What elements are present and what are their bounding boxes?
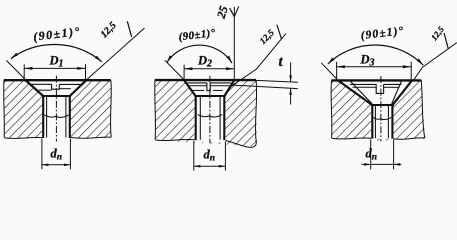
hole wall left (fig 2) <box>195 96 197 140</box>
screw shank line left (fig 3) <box>374 106 376 138</box>
hole wall right (fig 2) <box>223 96 225 140</box>
dn dimension line (fig 2) <box>194 165 226 167</box>
dn extension line right (fig 2) <box>224 142 226 171</box>
D2 extension line right extended to Ra25 mark (fig 2) <box>233 7 235 79</box>
roughness leader 12.5 (fig 2) <box>232 34 286 86</box>
screw shank line right (fig 1) <box>65 97 67 138</box>
top surface line (fig 2) <box>155 79 256 81</box>
centre axis (fig 2) <box>209 76 211 143</box>
countersink cone right edge (fig 2) <box>224 80 234 96</box>
block break edge right (fig 3) <box>421 80 425 138</box>
countersink bottom line (fig 1) <box>42 95 71 97</box>
D3 extension line right (fig 3) <box>410 62 412 80</box>
block bottom edge (fig 3) <box>332 138 372 139</box>
hole wall right (fig 1) <box>69 96 71 138</box>
hatched block (figure 3) <box>331 80 425 140</box>
countersink cone left edge (fig 2) <box>184 80 196 96</box>
D1 dimension line (fig 1) <box>24 67 85 69</box>
t dimension upper arrow (fig 2) <box>290 62 292 82</box>
dn extension line left (fig 3) <box>370 139 372 169</box>
thread runout curves (fig 2) <box>198 114 210 116</box>
top surface line (fig 1) <box>4 79 111 81</box>
thread runout curves (fig 1) <box>44 115 56 117</box>
block break edge right (fig 2) <box>253 80 256 147</box>
left cone extension above surface (fig 2) <box>165 60 184 79</box>
dn extension line right (fig 3) <box>393 139 395 169</box>
left cone extension above surface (fig 3) <box>321 63 338 80</box>
screw shank line left (fig 1) <box>46 97 48 138</box>
countersink cone left edge (fig 1) <box>26 80 44 96</box>
Ra 25 roughness tick (fig 2) <box>230 8 235 17</box>
screw slot lines (fig 2) <box>188 85 207 87</box>
t upper extension line at surface level (fig 2) <box>256 80 298 82</box>
countersink cone right edge (fig 1) <box>70 80 87 96</box>
screw shank line right (fig 2) <box>219 97 221 140</box>
dn extension line left (fig 2) <box>193 141 195 171</box>
block bottom edge (fig 1) <box>4 137 42 138</box>
dn dimension line (fig 1) <box>42 164 71 166</box>
screw head cone side left (fig 3) <box>350 81 372 104</box>
block break edge left (fig 1) <box>3 80 6 137</box>
hole wall right (fig 3) <box>391 105 393 139</box>
D3 extension line left (fig 3) <box>336 62 338 80</box>
D2 extension line left (fig 2) <box>183 65 185 80</box>
roughness tick (fig 1) <box>127 21 131 37</box>
dn extension line right (fig 1) <box>69 139 71 170</box>
countersink cone left edge (fig 3) <box>338 80 372 105</box>
hatched block (figure 2) <box>155 80 257 146</box>
angle arc (fig 3) <box>328 45 424 65</box>
top surface line (fig 3) <box>331 79 421 81</box>
roughness tick (fig 3) <box>444 33 448 49</box>
centre axis (fig 1) <box>55 76 57 142</box>
t dimension lower arrow (fig 2) <box>290 88 292 104</box>
D1 extension line left (fig 1) <box>23 64 25 79</box>
D2 dimension line (fig 2) <box>184 68 234 70</box>
centre axis (fig 3) <box>380 76 382 142</box>
block break edge left (fig 2) <box>154 80 157 140</box>
dn extension line left (fig 1) <box>41 139 43 170</box>
roughness leader 12.5 (fig 1) <box>87 28 145 80</box>
t lower extension line at screw head level (fig 2) <box>231 85 298 89</box>
screw slot lines (fig 1) <box>31 83 52 85</box>
hatched block (figure 1) <box>4 80 111 138</box>
angle arc (fig 1) <box>11 44 102 61</box>
dn dimension line with outside arrows (fig 3) <box>361 163 401 165</box>
thread runout curves (fig 3) <box>374 117 381 119</box>
countersink bottom line (fig 2) <box>194 95 225 97</box>
screw slot lines (fig 3) <box>350 83 376 85</box>
recessed screw head top lines (fig 2) <box>187 82 207 84</box>
block bottom edge (fig 2) <box>155 139 194 140</box>
hole wall left (fig 3) <box>371 105 373 139</box>
screw shank line right (fig 3) <box>387 106 389 138</box>
roughness leader 12.5 (fig 3) <box>414 43 457 81</box>
countersink bottom line (fig 3) <box>371 104 394 106</box>
angle arc (fig 2) <box>167 45 232 63</box>
D3 dimension line (fig 3) <box>337 66 412 68</box>
roughness tick (fig 2) <box>277 25 282 39</box>
hole wall left (fig 1) <box>42 96 44 138</box>
block break edge left (fig 3) <box>330 80 333 138</box>
left cone extension above surface (fig 1) <box>6 60 25 79</box>
D1 extension line right (fig 1) <box>85 64 87 79</box>
countersink cone right edge (fig 3) <box>393 80 413 105</box>
screw head cone side right (fig 3) <box>392 81 402 104</box>
block break edge right (fig 1) <box>110 80 113 137</box>
screw shank line left (fig 2) <box>199 97 201 140</box>
